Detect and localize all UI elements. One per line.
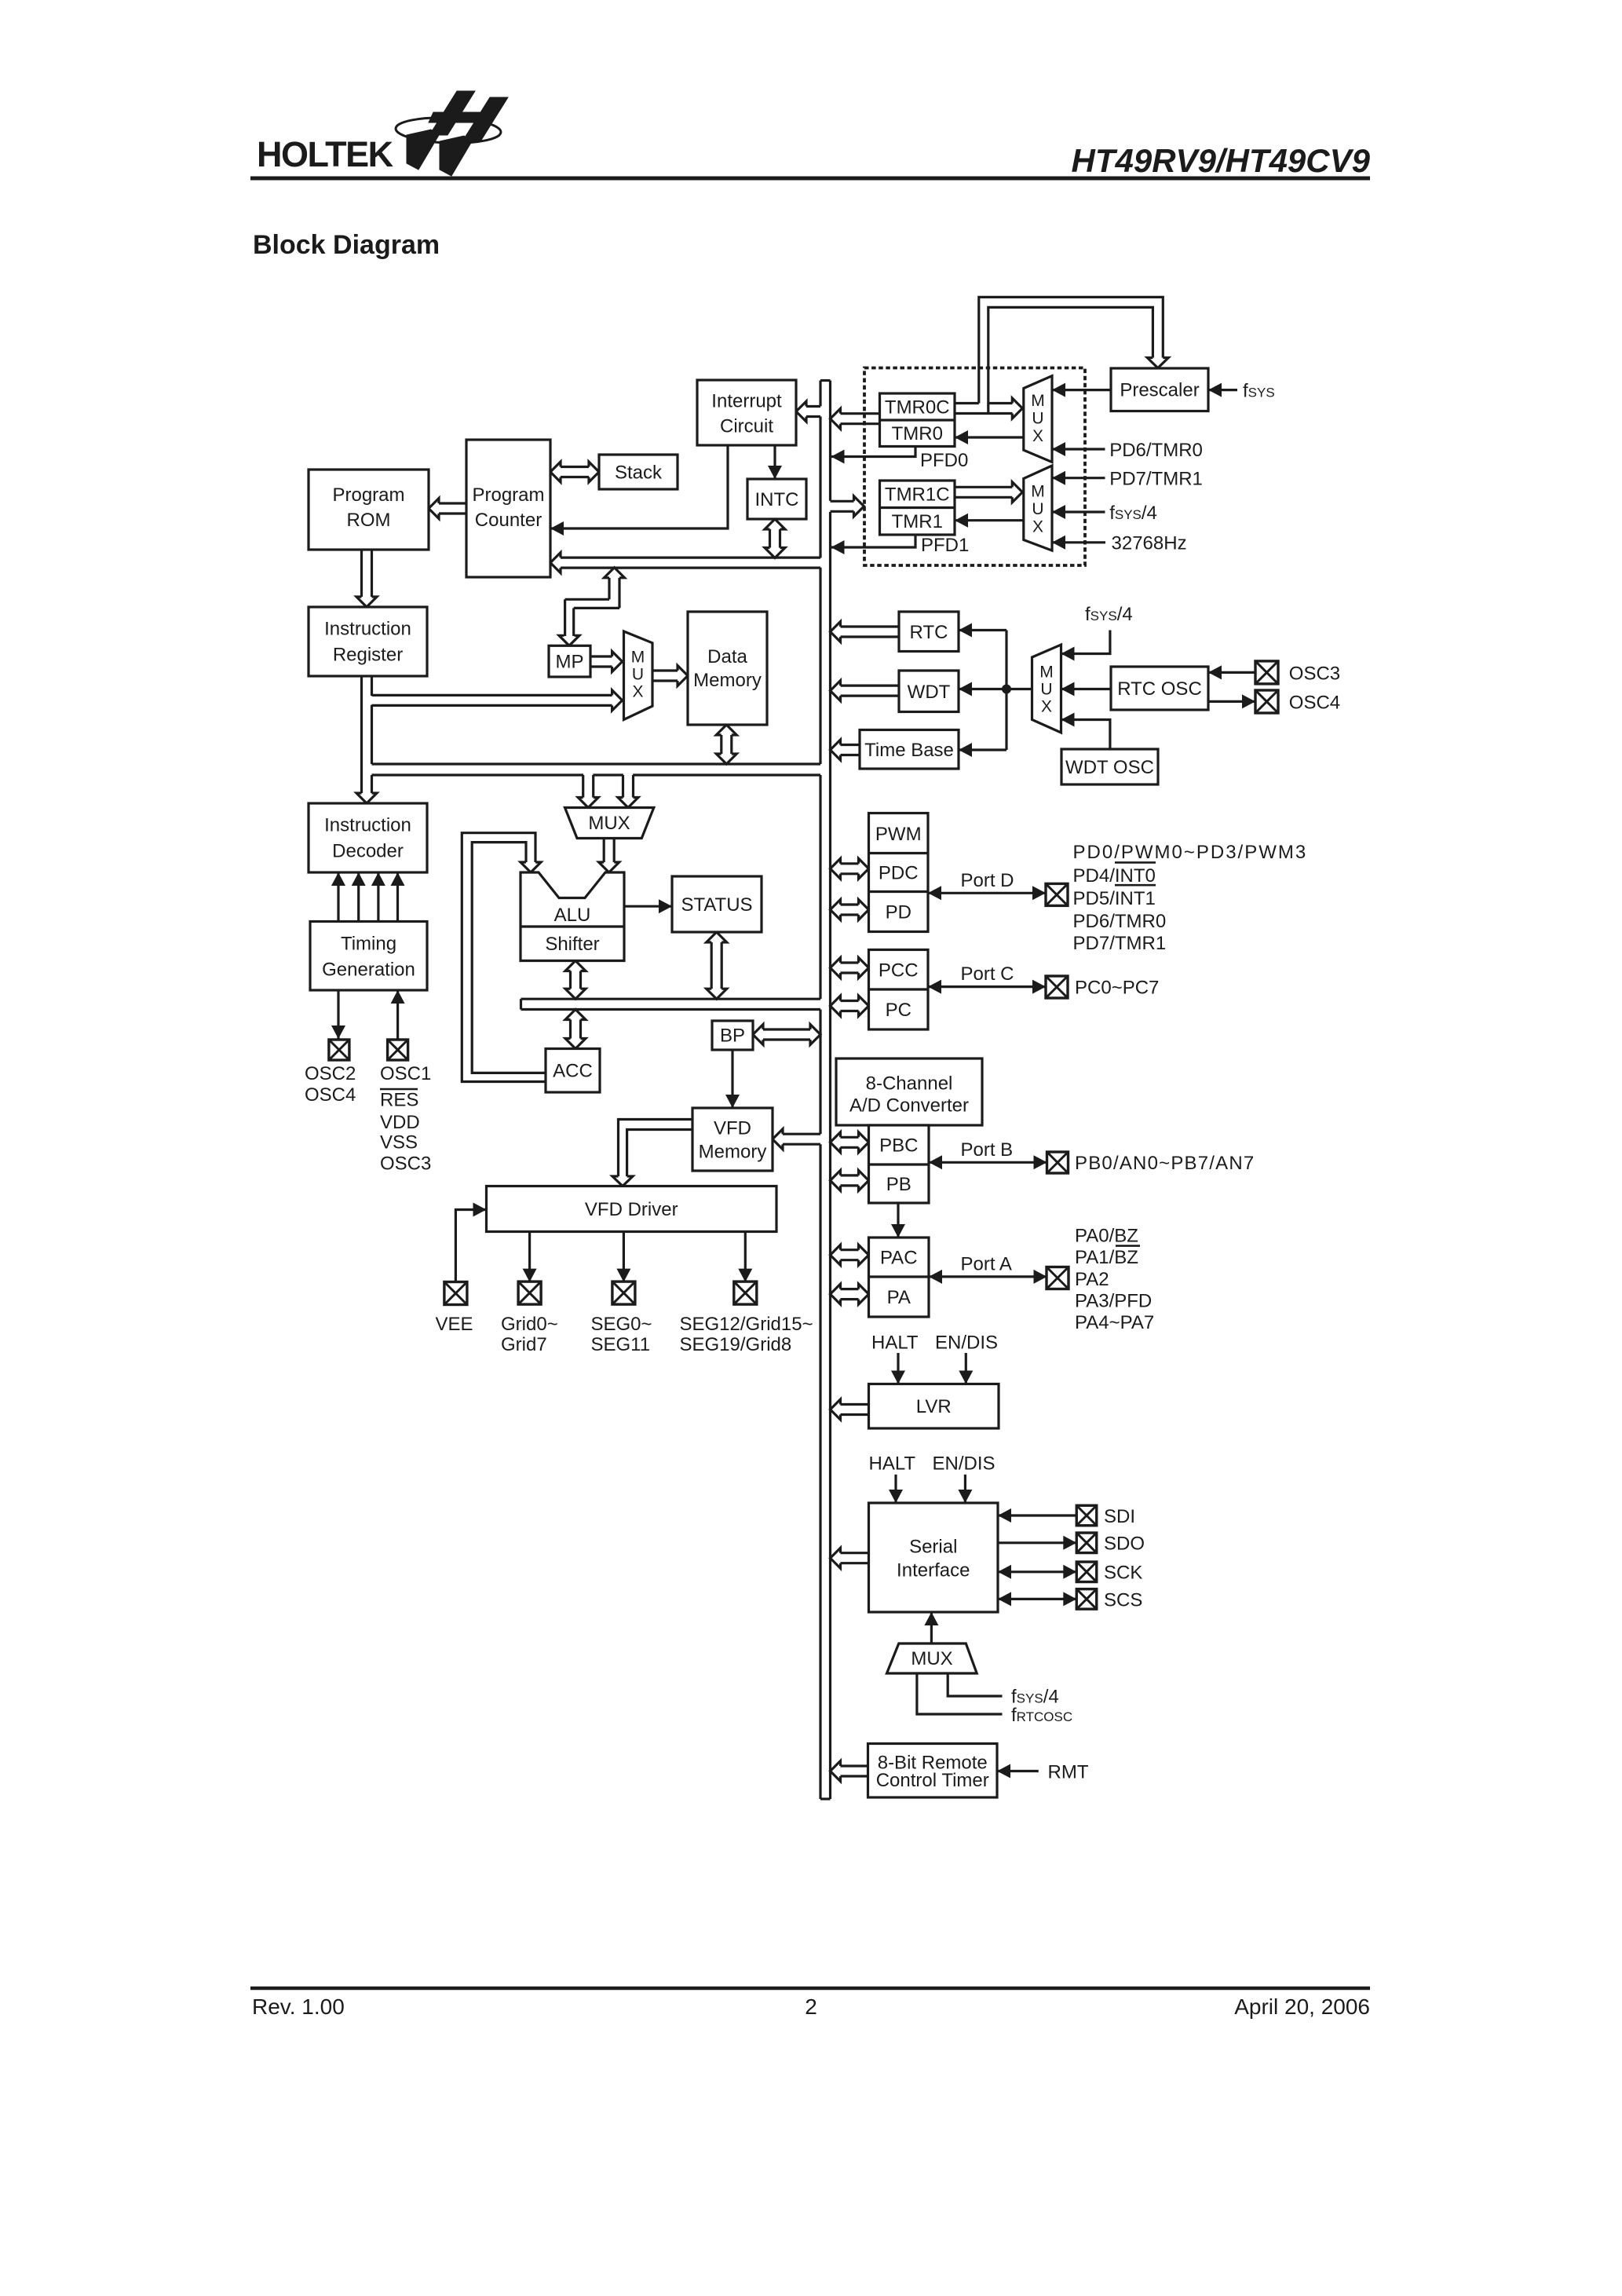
svg-text:PA2: PA2 xyxy=(1075,1269,1109,1290)
svg-text:PA1/BZ: PA1/BZ xyxy=(1075,1247,1138,1268)
open arrow into Prescaler top xyxy=(1147,358,1168,368)
svg-text:PD: PD xyxy=(886,902,911,923)
svg-text:U: U xyxy=(1032,410,1043,428)
register dividers port D xyxy=(869,852,929,854)
register divider TMR1 xyxy=(880,506,955,509)
wire feedback loop TMR0C to Prescaler inner xyxy=(988,307,1153,413)
svg-text:TMR0: TMR0 xyxy=(892,423,943,444)
serial clock MUX xyxy=(887,1643,977,1673)
wire BP to VFD Memory xyxy=(731,1050,733,1108)
bus Serial Interface to main bus xyxy=(831,1548,841,1568)
wire fRTCOSC to serial MUX xyxy=(917,1673,1003,1714)
bus instruction literal to data path upper line xyxy=(372,762,821,765)
svg-text:LVR: LVR xyxy=(916,1396,952,1417)
svg-text:RTC: RTC xyxy=(910,622,948,643)
wire fsys/4 to RTC MUX xyxy=(1061,631,1110,654)
wire timing to decoder 4 xyxy=(396,872,399,922)
svg-text:MP: MP xyxy=(556,652,584,673)
block ALU with Shifter xyxy=(521,872,624,961)
svg-text:Stack: Stack xyxy=(615,462,663,484)
pad Port D xyxy=(1046,883,1068,905)
main data bus bottom cap xyxy=(820,1797,831,1800)
wire RTC MUX output xyxy=(1006,688,1032,690)
block 8-Bit Remote Control Timer xyxy=(868,1744,998,1798)
wire MUX1 to TMR0 xyxy=(955,436,1024,438)
pad OSC1 xyxy=(388,1040,408,1060)
svg-text:ACC: ACC xyxy=(553,1061,593,1082)
svg-text:TMR0C: TMR0C xyxy=(885,397,950,419)
svg-text:SDI: SDI xyxy=(1104,1506,1135,1527)
pad Port B xyxy=(1047,1152,1069,1173)
svg-text:OSC3: OSC3 xyxy=(1289,663,1340,684)
wire EN/DIS to Serial Interface xyxy=(964,1475,966,1503)
wire RMT to remote control timer xyxy=(997,1770,1039,1772)
svg-text:Block Diagram: Block Diagram xyxy=(253,230,440,260)
svg-text:U: U xyxy=(1040,681,1052,699)
svg-text:TMR1: TMR1 xyxy=(892,511,943,532)
wire HALT to Serial Interface xyxy=(894,1475,897,1503)
wire fsys to Prescaler xyxy=(1208,389,1237,391)
svg-text:Port D: Port D xyxy=(961,870,1014,891)
svg-text:EN/DIS: EN/DIS xyxy=(935,1333,998,1354)
block STATUS xyxy=(672,876,762,932)
main data bus left line xyxy=(819,381,821,407)
svg-text:PD5/INT1: PD5/INT1 xyxy=(1073,888,1156,909)
wire PFD0 to data bus xyxy=(831,447,916,457)
svg-text:INTC: INTC xyxy=(755,489,799,510)
bus INTC to program counter bus xyxy=(765,519,785,529)
svg-text:Counter: Counter xyxy=(475,510,542,531)
svg-text:Interrupt: Interrupt xyxy=(711,391,782,412)
HOLTEK logo ellipse xyxy=(395,116,501,145)
svg-text:X: X xyxy=(632,683,643,701)
svg-text:Port C: Port C xyxy=(961,963,1014,985)
svg-text:ALU: ALU xyxy=(554,905,591,926)
register divider port C xyxy=(869,988,929,990)
bus instruction literal to data path lower line xyxy=(372,773,584,776)
bus ACC feedback inner xyxy=(472,843,546,1073)
svg-text:PD4/INT0: PD4/INT0 xyxy=(1073,865,1156,887)
block RTC OSC xyxy=(1111,667,1208,710)
dashed timer block xyxy=(864,368,1085,566)
svg-text:RTC OSC: RTC OSC xyxy=(1117,678,1202,700)
svg-text:Port B: Port B xyxy=(961,1139,1014,1161)
bus main bus to PBC xyxy=(831,1132,841,1153)
svg-text:PAC: PAC xyxy=(880,1248,918,1269)
svg-text:Decoder: Decoder xyxy=(332,841,404,862)
junction dot clock node xyxy=(1002,685,1011,694)
wire feedback loop TMR0C to Prescaler outer xyxy=(979,297,1164,403)
svg-text:OSC1: OSC1 xyxy=(380,1063,431,1084)
svg-text:Generation: Generation xyxy=(322,960,415,981)
block Time Base xyxy=(860,730,959,770)
svg-text:2: 2 xyxy=(805,1994,817,2019)
HOLTEK logo mark bars xyxy=(429,91,475,135)
bus Instruction Register to Instruction Decoder xyxy=(356,793,377,803)
bus Instruction Register to address MUX xyxy=(612,690,623,711)
wire clock to RTC xyxy=(959,629,1006,631)
svg-text:TMR1C: TMR1C xyxy=(885,484,950,506)
svg-text:SDO: SDO xyxy=(1104,1534,1145,1555)
wire MUX2 to TMR1 xyxy=(955,519,1024,521)
svg-text:Serial: Serial xyxy=(909,1537,957,1558)
wire PB to PAC xyxy=(897,1203,899,1238)
svg-text:VSS: VSS xyxy=(380,1132,418,1153)
svg-text:WDT: WDT xyxy=(908,682,951,703)
pad Port C xyxy=(1046,976,1068,998)
pad SDI xyxy=(1076,1505,1097,1526)
internal data bus horizontal xyxy=(521,998,821,1000)
bus main bus to Interrupt Circuit xyxy=(796,401,806,422)
svg-text:M: M xyxy=(631,649,645,667)
svg-text:STATUS: STATUS xyxy=(681,894,752,916)
block Program ROM xyxy=(309,470,429,550)
svg-text:SEG0~: SEG0~ xyxy=(591,1314,652,1335)
main data bus top cap xyxy=(820,379,831,382)
bus TMR0 registers to main bus xyxy=(831,408,841,429)
wire Port C xyxy=(928,985,1046,988)
footer rule xyxy=(250,1987,1370,1991)
bus MP to address MUX xyxy=(612,652,623,672)
svg-text:HOLTEK: HOLTEK xyxy=(257,134,394,174)
wire ALU to STATUS xyxy=(624,905,672,908)
register divider port B xyxy=(869,1163,930,1165)
wire timing to decoder 2 xyxy=(357,872,360,922)
bus internal bus to ACC xyxy=(565,1010,586,1020)
wire Interrupt Circuit to Program Counter xyxy=(550,445,728,528)
svg-text:PFD0: PFD0 xyxy=(920,450,968,471)
svg-text:HALT: HALT xyxy=(869,1453,916,1475)
svg-text:RES: RES xyxy=(380,1090,418,1111)
block Stack xyxy=(599,455,678,489)
svg-text:Instruction: Instruction xyxy=(324,619,411,640)
svg-text:BP: BP xyxy=(720,1026,745,1047)
svg-text:X: X xyxy=(1032,518,1043,536)
svg-text:M: M xyxy=(1039,664,1054,682)
svg-text:PDC: PDC xyxy=(879,863,919,884)
svg-text:Control Timer: Control Timer xyxy=(876,1770,989,1791)
svg-text:Rev. 1.00: Rev. 1.00 xyxy=(252,1994,345,2019)
block WDT OSC xyxy=(1061,749,1158,784)
registers PAC PA xyxy=(869,1238,930,1317)
bus Program Counter to Program ROM xyxy=(429,499,439,519)
block INTC xyxy=(747,479,806,519)
wire VFD Driver to SEG12 pads xyxy=(744,1232,747,1282)
wire WDT OSC to RTC MUX xyxy=(1061,720,1110,750)
bus address MUX to Data Memory xyxy=(678,666,688,686)
block Instruction Decoder xyxy=(309,803,427,872)
block Prescaler xyxy=(1111,368,1208,411)
svg-text:PBC: PBC xyxy=(879,1135,918,1157)
svg-text:Time Base: Time Base xyxy=(864,740,954,761)
pad SDO xyxy=(1076,1533,1097,1553)
svg-text:PB: PB xyxy=(886,1174,911,1195)
svg-text:April 20, 2006: April 20, 2006 xyxy=(1234,1994,1370,2019)
bus main bus to VFD Memory xyxy=(773,1129,783,1150)
main data bus right line xyxy=(829,381,831,501)
register TMR0C and TMR0 xyxy=(880,393,955,447)
svg-text:MUX: MUX xyxy=(588,813,630,834)
register divider TMR0 xyxy=(880,419,955,421)
svg-text:PA3/PFD: PA3/PFD xyxy=(1075,1291,1152,1312)
bus main bus to PB xyxy=(831,1170,841,1190)
svg-text:EN/DIS: EN/DIS xyxy=(933,1453,995,1475)
svg-text:OSC4: OSC4 xyxy=(1289,692,1340,713)
bus main bus to PDC xyxy=(831,858,841,879)
svg-text:X: X xyxy=(1041,698,1052,716)
wire clock node vertical xyxy=(1005,631,1007,751)
svg-text:PA: PA xyxy=(887,1287,911,1308)
bus VFD Memory to VFD Driver xyxy=(619,1120,693,1177)
svg-text:PC: PC xyxy=(886,1000,911,1021)
svg-text:PA0/BZ: PA0/BZ xyxy=(1075,1225,1138,1246)
wire fsys/4 to serial MUX xyxy=(948,1673,1002,1696)
svg-text:HT49RV9/HT49CV9: HT49RV9/HT49CV9 xyxy=(1072,142,1371,179)
svg-text:PD0/PWM0~PD3/PWM3: PD0/PWM0~PD3/PWM3 xyxy=(1073,842,1308,863)
bus main bus to PA xyxy=(831,1284,841,1304)
register TMR1C and TMR1 xyxy=(880,481,955,535)
svg-text:PWM: PWM xyxy=(875,824,922,845)
wire OSC3 to RTC OSC xyxy=(1208,671,1255,674)
svg-text:Instruction: Instruction xyxy=(324,815,411,836)
wire serial MUX to Serial Interface xyxy=(930,1612,933,1643)
RTC clock MUX xyxy=(1032,645,1061,733)
pad SCK xyxy=(1076,1562,1097,1582)
svg-text:SCK: SCK xyxy=(1104,1563,1142,1584)
block Timing Generation xyxy=(310,922,427,991)
svg-text:OSC2: OSC2 xyxy=(305,1063,356,1084)
svg-text:VDD: VDD xyxy=(380,1112,420,1133)
svg-text:WDT OSC: WDT OSC xyxy=(1065,757,1154,778)
wire SDI to Serial Interface xyxy=(998,1514,1076,1516)
svg-text:32768Hz: 32768Hz xyxy=(1112,533,1187,554)
svg-text:Register: Register xyxy=(333,645,403,666)
wire RTC OSC to RTC MUX xyxy=(1061,688,1112,690)
svg-text:PA4~PA7: PA4~PA7 xyxy=(1075,1312,1154,1333)
block RTC xyxy=(899,612,959,652)
bus main bus to WDT xyxy=(831,681,841,701)
svg-text:X: X xyxy=(1032,427,1043,445)
wire clock to Time Base xyxy=(959,748,1006,751)
wire SCK bidirectional xyxy=(998,1570,1076,1573)
svg-text:OSC3: OSC3 xyxy=(380,1153,431,1175)
svg-text:Memory: Memory xyxy=(699,1142,767,1163)
wire OSC1 to Timing Generation xyxy=(396,990,399,1039)
svg-text:ROM: ROM xyxy=(347,510,391,531)
wire timing to decoder 3 xyxy=(377,872,379,922)
pad SCS xyxy=(1076,1589,1097,1609)
svg-text:A/D Converter: A/D Converter xyxy=(849,1095,969,1117)
block VFD Memory xyxy=(692,1108,773,1171)
pad SEG0-SEG11 xyxy=(612,1281,635,1304)
bus LVR to main bus xyxy=(831,1399,841,1420)
bus Program Counter to Stack xyxy=(550,462,561,482)
data path MUX xyxy=(565,808,654,839)
wire Port B xyxy=(929,1161,1047,1164)
wire 32768Hz to MUX2 xyxy=(1052,541,1105,543)
svg-text:Interface: Interface xyxy=(897,1560,970,1581)
svg-text:SEG19/Grid8: SEG19/Grid8 xyxy=(680,1334,792,1355)
svg-text:PD6/TMR0: PD6/TMR0 xyxy=(1073,911,1167,932)
svg-text:Data: Data xyxy=(707,646,747,667)
svg-text:M: M xyxy=(1031,483,1045,501)
bus STATUS to internal bus xyxy=(707,932,727,942)
block Interrupt Circuit xyxy=(697,380,796,445)
bus remote control timer to main bus xyxy=(831,1761,841,1782)
wire Prescaler to MUX1 xyxy=(1052,389,1111,391)
svg-text:Memory: Memory xyxy=(693,670,762,691)
block MP xyxy=(549,645,590,677)
svg-text:Circuit: Circuit xyxy=(720,416,773,437)
svg-text:M: M xyxy=(1031,392,1045,410)
svg-text:Program: Program xyxy=(332,484,404,506)
pad OSC4 xyxy=(1255,690,1278,713)
svg-text:SCS: SCS xyxy=(1104,1589,1142,1610)
svg-text:SEG12/Grid15~: SEG12/Grid15~ xyxy=(680,1314,813,1335)
wire PD7/TMR1 to MUX2 xyxy=(1052,477,1105,479)
bus main bus to Program Counter xyxy=(550,553,561,573)
block Instruction Register xyxy=(309,607,427,676)
block VFD Driver xyxy=(487,1186,777,1232)
wire timing to decoder 1 xyxy=(337,872,339,922)
header rule xyxy=(250,177,1370,181)
bus data path to MP xyxy=(605,568,625,578)
wire PFD1 to data bus xyxy=(831,535,916,547)
address MUX xyxy=(624,631,653,720)
svg-text:Grid7: Grid7 xyxy=(501,1334,547,1355)
pad OSC3 xyxy=(1255,661,1278,684)
registers PWM PDC PD xyxy=(869,813,929,932)
bus TMR1C to timer MUX2 xyxy=(1012,482,1022,503)
bus data MUX to ALU xyxy=(599,862,619,872)
svg-text:Grid0~: Grid0~ xyxy=(501,1314,558,1335)
wire SCS bidirectional xyxy=(998,1598,1076,1600)
bus BP to main bus xyxy=(753,1025,763,1045)
bus branch into data MUX left xyxy=(578,798,598,808)
svg-text:PD6/TMR0: PD6/TMR0 xyxy=(1109,440,1203,461)
wire Timing Generation to OSC2 xyxy=(337,990,339,1039)
wire Port D xyxy=(928,892,1046,894)
svg-text:U: U xyxy=(1032,500,1043,518)
wire PD6/TMR0 to MUX1 xyxy=(1052,448,1105,450)
svg-text:HALT: HALT xyxy=(871,1333,919,1354)
block Data Memory xyxy=(688,612,767,725)
svg-text:Program: Program xyxy=(472,484,544,506)
registers PBC PB xyxy=(869,1125,930,1203)
bus main bus to PC register xyxy=(831,996,841,1016)
bus main bus to Time Base xyxy=(831,740,841,760)
svg-text:PB0/AN0~PB7/AN7: PB0/AN0~PB7/AN7 xyxy=(1075,1153,1255,1174)
bus main bus to PAC xyxy=(831,1245,841,1265)
svg-text:PFD1: PFD1 xyxy=(921,535,969,556)
svg-text:OSC4: OSC4 xyxy=(305,1084,356,1106)
pad SEG12-SEG19 xyxy=(734,1281,757,1304)
svg-text:Shifter: Shifter xyxy=(545,934,599,955)
bus Program ROM to Instruction Register xyxy=(356,597,377,607)
register divider port A xyxy=(869,1275,930,1278)
wire Serial Interface to SDO xyxy=(998,1541,1076,1544)
timer MUX2 xyxy=(1024,466,1052,550)
wire RTC OSC to OSC4 xyxy=(1208,700,1255,703)
svg-text:Prescaler: Prescaler xyxy=(1120,380,1199,401)
bus main bus to PCC xyxy=(831,958,841,978)
pad Port A xyxy=(1047,1267,1069,1289)
svg-text:VFD: VFD xyxy=(714,1118,751,1139)
wire VEE to VFD Driver xyxy=(455,1210,486,1283)
timer MUX1 xyxy=(1024,376,1052,462)
pad OSC2 xyxy=(329,1040,349,1060)
svg-text:8-Channel: 8-Channel xyxy=(866,1073,953,1095)
wire Port A xyxy=(929,1275,1047,1278)
bus Data Memory to data path xyxy=(716,725,736,735)
svg-text:PD7/TMR1: PD7/TMR1 xyxy=(1109,469,1203,490)
svg-text:Port A: Port A xyxy=(961,1253,1012,1274)
block Program Counter xyxy=(466,440,550,577)
svg-text:VFD Driver: VFD Driver xyxy=(585,1199,678,1220)
block LVR xyxy=(869,1384,999,1429)
wire Interrupt Circuit to INTC xyxy=(773,445,776,479)
svg-text:MUX: MUX xyxy=(911,1648,952,1669)
wire VFD Driver to SEG0 pads xyxy=(623,1232,625,1282)
svg-text:PD7/TMR1: PD7/TMR1 xyxy=(1073,933,1167,954)
wire fsys/4 to MUX2 xyxy=(1052,510,1105,513)
svg-text:PC0~PC7: PC0~PC7 xyxy=(1075,978,1159,999)
svg-text:SEG11: SEG11 xyxy=(591,1334,651,1355)
block WDT xyxy=(899,671,959,712)
svg-text:Timing: Timing xyxy=(341,934,396,955)
bus ACC feedback outer xyxy=(462,833,546,1082)
bus main bus to RTC xyxy=(831,622,841,642)
svg-text:RMT: RMT xyxy=(1048,1761,1089,1782)
block Serial Interface xyxy=(869,1503,999,1612)
wire VFD Driver to Grid pads xyxy=(528,1232,531,1282)
bus main bus to PD xyxy=(831,900,841,920)
bus TMR0C to timer MUX1 xyxy=(955,402,979,404)
block BP xyxy=(712,1021,753,1050)
svg-text:VEE: VEE xyxy=(436,1314,473,1335)
wire clock to WDT xyxy=(959,688,1006,690)
pad VEE xyxy=(444,1282,467,1305)
open arrow ACC feedback into ALU xyxy=(521,862,541,872)
svg-text:U: U xyxy=(632,666,644,684)
pad Grid0-Grid7 xyxy=(518,1281,541,1304)
block 8-Channel A/D Converter xyxy=(836,1058,982,1125)
block ACC xyxy=(546,1049,600,1093)
bus Shifter to internal bus xyxy=(565,961,586,971)
bus branch into data MUX right xyxy=(618,798,638,808)
wire EN/DIS to LVR xyxy=(965,1353,967,1384)
svg-text:PCC: PCC xyxy=(879,960,919,982)
wire HALT to LVR xyxy=(897,1353,899,1384)
bus main bus to TMR1 registers xyxy=(854,496,864,517)
registers PCC PC xyxy=(869,950,929,1030)
